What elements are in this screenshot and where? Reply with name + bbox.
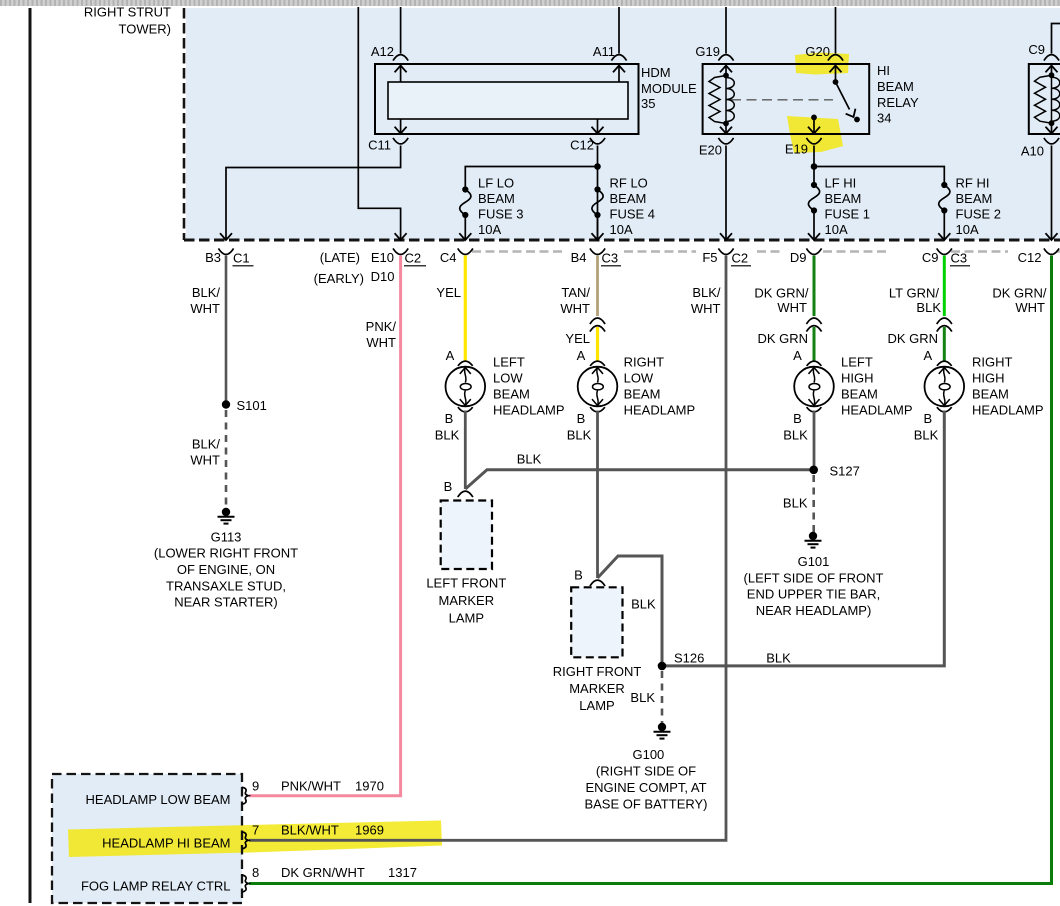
svg-text:C9: C9	[1028, 42, 1045, 57]
pin brace fog lamp	[242, 875, 249, 892]
wire feed A12	[400, 7, 402, 54]
wire C11 down and left to B3	[226, 146, 401, 240]
svg-text:MARKER: MARKER	[438, 593, 494, 608]
svg-text:C12: C12	[1018, 250, 1042, 265]
wire BLK branch diagonal to ground bus	[465, 470, 813, 489]
svg-text:10A: 10A	[610, 222, 633, 237]
wire feed G20	[835, 7, 837, 54]
fuse F3 LF LO BEAM	[460, 186, 471, 218]
relay switch contact node	[854, 117, 860, 123]
wire E19 to fuse 1	[813, 146, 815, 183]
svg-text:TOWER): TOWER)	[119, 22, 171, 37]
junction at C12/fuse3 branch	[594, 163, 601, 170]
svg-text:TAN/: TAN/	[561, 285, 590, 300]
wire branch to fuse 3	[465, 167, 597, 187]
fuse F1 LF HI BEAM	[808, 182, 819, 214]
relay switch common node	[833, 79, 839, 85]
svg-text:DK GRN/: DK GRN/	[992, 285, 1047, 300]
pin arrow C11	[400, 119, 402, 134]
wire BLK dashed to G101	[812, 475, 815, 532]
svg-text:YEL: YEL	[436, 285, 461, 300]
HDM module inner box	[388, 82, 628, 119]
wire BLK/WHT from B3 to S101	[225, 256, 228, 405]
svg-text:WHT: WHT	[1015, 300, 1045, 315]
svg-text:FUSE 3: FUSE 3	[478, 207, 524, 222]
svg-text:D9: D9	[790, 250, 807, 265]
pin brace hi beam	[242, 832, 249, 849]
svg-text:BLK: BLK	[783, 427, 808, 442]
svg-text:9: 9	[252, 778, 259, 793]
boundary arrow C12	[1046, 233, 1058, 240]
boundary arrow B4	[592, 233, 604, 240]
svg-text:(LEFT SIDE OF FRONT: (LEFT SIDE OF FRONT	[744, 570, 884, 585]
inline connector TAN to YEL	[590, 318, 605, 324]
connector G19	[718, 55, 733, 61]
wire feed A11	[618, 7, 620, 54]
svg-text:E10: E10	[371, 250, 394, 265]
svg-text:BLK: BLK	[783, 495, 808, 510]
svg-text:BEAM: BEAM	[610, 191, 647, 206]
wire YEL from C4 to left low lamp	[464, 256, 467, 361]
svg-text:WHT: WHT	[777, 300, 807, 315]
wire LT GRN/BLK from C9	[943, 256, 946, 317]
pin arrow G19	[720, 66, 732, 73]
svg-text:S127: S127	[830, 463, 860, 478]
svg-text:BLK: BLK	[914, 427, 939, 442]
highlighter mark over G20	[795, 53, 849, 75]
svg-text:DK GRN: DK GRN	[887, 331, 938, 346]
svg-text:BEAM: BEAM	[877, 79, 914, 94]
svg-text:BASE OF BATTERY): BASE OF BATTERY)	[584, 796, 707, 811]
fuse F2 RF HI BEAM	[939, 182, 950, 214]
svg-text:S126: S126	[674, 651, 704, 666]
svg-text:B: B	[444, 479, 453, 494]
svg-text:BLK: BLK	[631, 596, 656, 611]
svg-text:BLK/WHT: BLK/WHT	[281, 822, 339, 837]
svg-text:LEFT: LEFT	[493, 354, 525, 369]
splice S127	[809, 466, 818, 475]
svg-text:1970: 1970	[355, 778, 384, 793]
svg-text:DK GRN/: DK GRN/	[754, 285, 809, 300]
svg-text:TRANSAXLE STUD,: TRANSAXLE STUD,	[166, 578, 286, 593]
boundary arrow C9	[938, 233, 950, 240]
svg-text:BLK: BLK	[630, 690, 655, 705]
wire BLK/WHT from F5 to hi beam pin	[249, 256, 726, 841]
connector C9	[1044, 55, 1059, 61]
svg-text:OF ENGINE, ON: OF ENGINE, ON	[177, 562, 275, 577]
lamp RIGHT LOW BEAM HEADLAMP	[578, 361, 618, 412]
inline connector DK GRN	[806, 318, 821, 324]
splice S126	[658, 662, 667, 671]
svg-text:G100: G100	[632, 747, 664, 762]
wire C12 down to fuse 4 and boundary	[597, 146, 599, 240]
boundary arrow F5	[720, 233, 732, 240]
wire PNK/WHT from E10 to low beam pin	[249, 256, 401, 796]
svg-text:RIGHT FRONT: RIGHT FRONT	[553, 664, 642, 679]
relay switch blade	[836, 82, 850, 110]
svg-text:C2: C2	[732, 251, 749, 266]
svg-text:G101: G101	[798, 554, 830, 569]
svg-text:7: 7	[252, 822, 259, 837]
connector C12	[590, 138, 605, 144]
svg-text:HIGH: HIGH	[972, 370, 1005, 385]
fuse block left dashed border	[183, 8, 186, 240]
lamp LEFT HIGH BEAM HEADLAMP	[794, 361, 834, 412]
right front marker lamp box	[571, 587, 622, 657]
fuse F4 RF LO BEAM	[592, 186, 603, 218]
connector C12	[1044, 248, 1059, 254]
svg-text:ENGINE COMPT, AT: ENGINE COMPT, AT	[585, 780, 706, 795]
relay coil	[709, 73, 734, 127]
svg-text:E20: E20	[699, 143, 722, 158]
fuse block bottom dashed border	[184, 239, 1060, 242]
svg-text:LT GRN/: LT GRN/	[889, 285, 939, 300]
connector G20	[828, 55, 843, 61]
wire TAN/WHT from B4	[596, 256, 599, 317]
HDM module U35 outer box	[375, 64, 639, 134]
svg-text:LAMP: LAMP	[579, 698, 614, 713]
wire BLK right high lamp to S126	[662, 411, 944, 666]
pin arrow E20	[725, 124, 727, 134]
svg-text:RF LO: RF LO	[610, 176, 648, 191]
connector C4	[458, 248, 473, 254]
svg-text:A: A	[446, 348, 455, 363]
wire DK GRN to left high lamp	[813, 327, 816, 361]
junction at E19/fuse2 branch	[811, 163, 818, 170]
svg-text:10A: 10A	[825, 222, 848, 237]
pin arrow A11	[613, 66, 625, 73]
svg-text:C12: C12	[570, 138, 594, 153]
lamp RIGHT HIGH BEAM HEADLAMP	[925, 361, 965, 412]
wire BLK/WHT dashed to G113	[225, 410, 228, 509]
secondary connector gray dashed line	[472, 250, 1060, 252]
svg-text:WHT: WHT	[560, 301, 590, 316]
svg-text:10A: 10A	[956, 222, 979, 237]
svg-text:A11: A11	[593, 44, 615, 59]
svg-text:RELAY: RELAY	[877, 95, 919, 110]
svg-text:LF LO: LF LO	[478, 176, 514, 191]
svg-text:HEADLAMP: HEADLAMP	[841, 402, 913, 417]
svg-text:HEADLAMP: HEADLAMP	[624, 402, 696, 417]
boundary arrow D9	[808, 233, 820, 240]
svg-text:RIGHT: RIGHT	[972, 354, 1013, 369]
svg-text:WHT: WHT	[190, 301, 220, 316]
wire BLK branch diagonal to S126	[598, 556, 663, 666]
svg-text:FOG LAMP RELAY CTRL: FOG LAMP RELAY CTRL	[81, 878, 231, 893]
svg-text:HDM: HDM	[641, 65, 671, 80]
bottom connector box dashed border	[52, 774, 242, 903]
lamp LEFT LOW BEAM HEADLAMP	[446, 361, 486, 412]
terminal right front marker lamp	[590, 580, 605, 586]
svg-text:MODULE: MODULE	[641, 81, 697, 96]
svg-text:(RIGHT SIDE OF: (RIGHT SIDE OF	[596, 763, 696, 778]
svg-text:NEAR STARTER): NEAR STARTER)	[174, 595, 278, 610]
wire early/late feed to E10	[358, 7, 400, 240]
highlighter mark over E19	[787, 116, 843, 153]
bottom connector box fill	[52, 774, 242, 903]
wire branch to fuse 2	[814, 167, 944, 183]
connector E20	[718, 138, 733, 144]
svg-text:C2: C2	[405, 251, 422, 266]
highlighter mark over HEADLAMP HI BEAM row	[68, 821, 442, 858]
svg-text:RF HI: RF HI	[956, 176, 990, 191]
svg-text:BLK/: BLK/	[192, 436, 221, 451]
svg-text:LF HI: LF HI	[825, 176, 857, 191]
svg-text:G19: G19	[695, 44, 720, 59]
connector D9	[806, 248, 821, 254]
svg-text:LEFT FRONT: LEFT FRONT	[426, 576, 506, 591]
connector A11	[611, 55, 626, 61]
svg-text:B3: B3	[205, 250, 221, 265]
connector A10	[1044, 138, 1059, 144]
wire BLK dashed to G100	[661, 671, 664, 723]
svg-text:B: B	[574, 567, 583, 582]
svg-text:C1: C1	[233, 251, 250, 266]
svg-text:D10: D10	[371, 269, 395, 284]
svg-text:FUSE 4: FUSE 4	[610, 207, 656, 222]
wire DK GRN to right high lamp	[943, 327, 946, 361]
HI BEAM RELAY 34 box	[703, 64, 870, 134]
svg-text:A10: A10	[1021, 144, 1044, 159]
svg-text:BEAM: BEAM	[956, 191, 993, 206]
svg-text:BLK: BLK	[435, 427, 460, 442]
svg-text:(LATE): (LATE)	[320, 250, 360, 265]
svg-text:C3: C3	[951, 251, 968, 266]
svg-text:C3: C3	[602, 251, 619, 266]
svg-text:(LOWER RIGHT FRONT: (LOWER RIGHT FRONT	[154, 546, 298, 561]
wire feed C9	[1052, 24, 1060, 54]
svg-text:C11: C11	[368, 138, 391, 153]
svg-text:NEAR HEADLAMP): NEAR HEADLAMP)	[756, 603, 872, 618]
ground G101	[805, 532, 822, 548]
relay output node E19	[811, 115, 817, 121]
svg-text:BLK/: BLK/	[692, 285, 721, 300]
ground G100	[654, 723, 671, 739]
svg-text:HEADLAMP HI BEAM: HEADLAMP HI BEAM	[102, 835, 230, 850]
svg-text:HEADLAMP: HEADLAMP	[972, 402, 1044, 417]
svg-text:B: B	[445, 411, 454, 426]
pin arrow A12	[395, 66, 407, 73]
wire E20 to boundary F5	[725, 146, 727, 240]
pin arrow C12	[597, 119, 599, 134]
connector C9/C3	[937, 248, 952, 254]
svg-text:BLK: BLK	[766, 651, 791, 666]
connector A12	[393, 55, 408, 61]
svg-text:C9: C9	[922, 250, 939, 265]
svg-text:HIGH: HIGH	[841, 370, 874, 385]
svg-text:PNK/: PNK/	[366, 319, 397, 334]
connector C11	[393, 138, 408, 144]
boundary arrow B3	[220, 233, 232, 240]
svg-text:LAMP: LAMP	[449, 611, 484, 626]
svg-text:BLK: BLK	[567, 427, 592, 442]
wire A10 to boundary	[1051, 146, 1053, 240]
svg-text:RIGHT STRUT: RIGHT STRUT	[84, 5, 171, 20]
svg-text:10A: 10A	[478, 222, 501, 237]
terminal left front marker lamp	[458, 491, 473, 497]
svg-text:HI: HI	[877, 63, 890, 78]
left page border line	[29, 8, 32, 903]
svg-text:G20: G20	[805, 44, 830, 59]
svg-text:BLK: BLK	[916, 300, 941, 315]
boundary arrow E10	[395, 233, 407, 240]
cropped top dashed strip	[0, 0, 1060, 6]
svg-text:BLK: BLK	[517, 451, 542, 466]
inline connector DK GRN right	[937, 318, 952, 324]
wire YEL to right low lamp	[596, 327, 599, 361]
svg-text:BEAM: BEAM	[972, 386, 1009, 401]
svg-text:1969: 1969	[355, 822, 384, 837]
connector B3/C1	[218, 248, 233, 254]
wire DK GRN/WHT from C12 to fog lamp pin	[249, 256, 1052, 884]
svg-text:BLK/: BLK/	[192, 285, 221, 300]
svg-text:34: 34	[877, 111, 891, 126]
pin brace low beam	[242, 787, 249, 804]
boundary arrow C4	[459, 233, 471, 240]
svg-text:35: 35	[641, 96, 655, 111]
svg-text:BEAM: BEAM	[841, 386, 878, 401]
svg-text:WHT: WHT	[691, 301, 721, 316]
ground G113	[218, 508, 235, 524]
pin arrow E19	[813, 119, 815, 134]
splice S101	[222, 400, 230, 408]
wire BLK left low lamp to marker terminal	[464, 411, 467, 490]
svg-text:1317: 1317	[388, 865, 417, 880]
left front marker lamp box	[441, 501, 492, 570]
svg-text:BEAM: BEAM	[624, 386, 661, 401]
svg-text:LOW: LOW	[624, 370, 654, 385]
pin arrow G20	[830, 66, 842, 73]
svg-text:BEAM: BEAM	[825, 191, 862, 206]
svg-text:BEAM: BEAM	[478, 191, 515, 206]
svg-text:A12: A12	[371, 44, 394, 59]
svg-text:FUSE 2: FUSE 2	[956, 207, 1002, 222]
connector B4/C3	[590, 248, 605, 254]
svg-text:(EARLY): (EARLY)	[314, 271, 364, 286]
connector E19	[806, 138, 821, 144]
svg-text:FUSE 1: FUSE 1	[825, 207, 871, 222]
svg-text:8: 8	[252, 865, 259, 880]
svg-text:LOW: LOW	[493, 370, 523, 385]
pin arrow C9	[1046, 66, 1058, 73]
svg-text:S101: S101	[237, 398, 267, 413]
connector E10/D10/C2	[393, 248, 408, 254]
svg-text:WHT: WHT	[366, 335, 396, 350]
svg-text:B4: B4	[571, 250, 587, 265]
pin arrow A10	[1051, 123, 1053, 133]
svg-text:A: A	[793, 348, 802, 363]
svg-text:A: A	[923, 348, 932, 363]
svg-text:B: B	[577, 411, 586, 426]
wire feed G19	[725, 7, 727, 54]
right module box (cropped)	[1029, 64, 1060, 134]
svg-text:PNK/WHT: PNK/WHT	[281, 778, 341, 793]
connector F5/C2	[718, 248, 733, 254]
svg-text:B: B	[923, 411, 932, 426]
svg-text:A: A	[577, 348, 586, 363]
svg-text:HEADLAMP: HEADLAMP	[493, 402, 565, 417]
svg-text:LEFT: LEFT	[841, 354, 873, 369]
svg-text:E19: E19	[785, 142, 808, 157]
wire DK GRN/WHT from D9	[813, 256, 816, 317]
svg-text:HEADLAMP LOW BEAM: HEADLAMP LOW BEAM	[86, 792, 231, 807]
svg-text:MARKER: MARKER	[569, 681, 625, 696]
wire BLK left high lamp to S127	[813, 411, 816, 470]
svg-text:BEAM: BEAM	[493, 386, 530, 401]
svg-text:WHT: WHT	[190, 452, 220, 467]
svg-text:DK GRN/WHT: DK GRN/WHT	[281, 865, 365, 880]
svg-text:C4: C4	[440, 250, 457, 265]
wire BLK right low lamp down to marker terminal	[596, 411, 599, 579]
svg-text:G113: G113	[211, 530, 242, 545]
svg-text:F5: F5	[702, 250, 717, 265]
svg-text:YEL: YEL	[565, 331, 590, 346]
right module coil	[1035, 72, 1060, 126]
svg-text:END UPPER TIE BAR,: END UPPER TIE BAR,	[747, 587, 880, 602]
underhood fuse block shaded area	[186, 8, 1060, 240]
relay mechanical dashed link	[731, 99, 833, 101]
svg-text:RIGHT: RIGHT	[624, 354, 665, 369]
svg-text:B: B	[793, 411, 802, 426]
svg-text:DK GRN: DK GRN	[757, 331, 808, 346]
